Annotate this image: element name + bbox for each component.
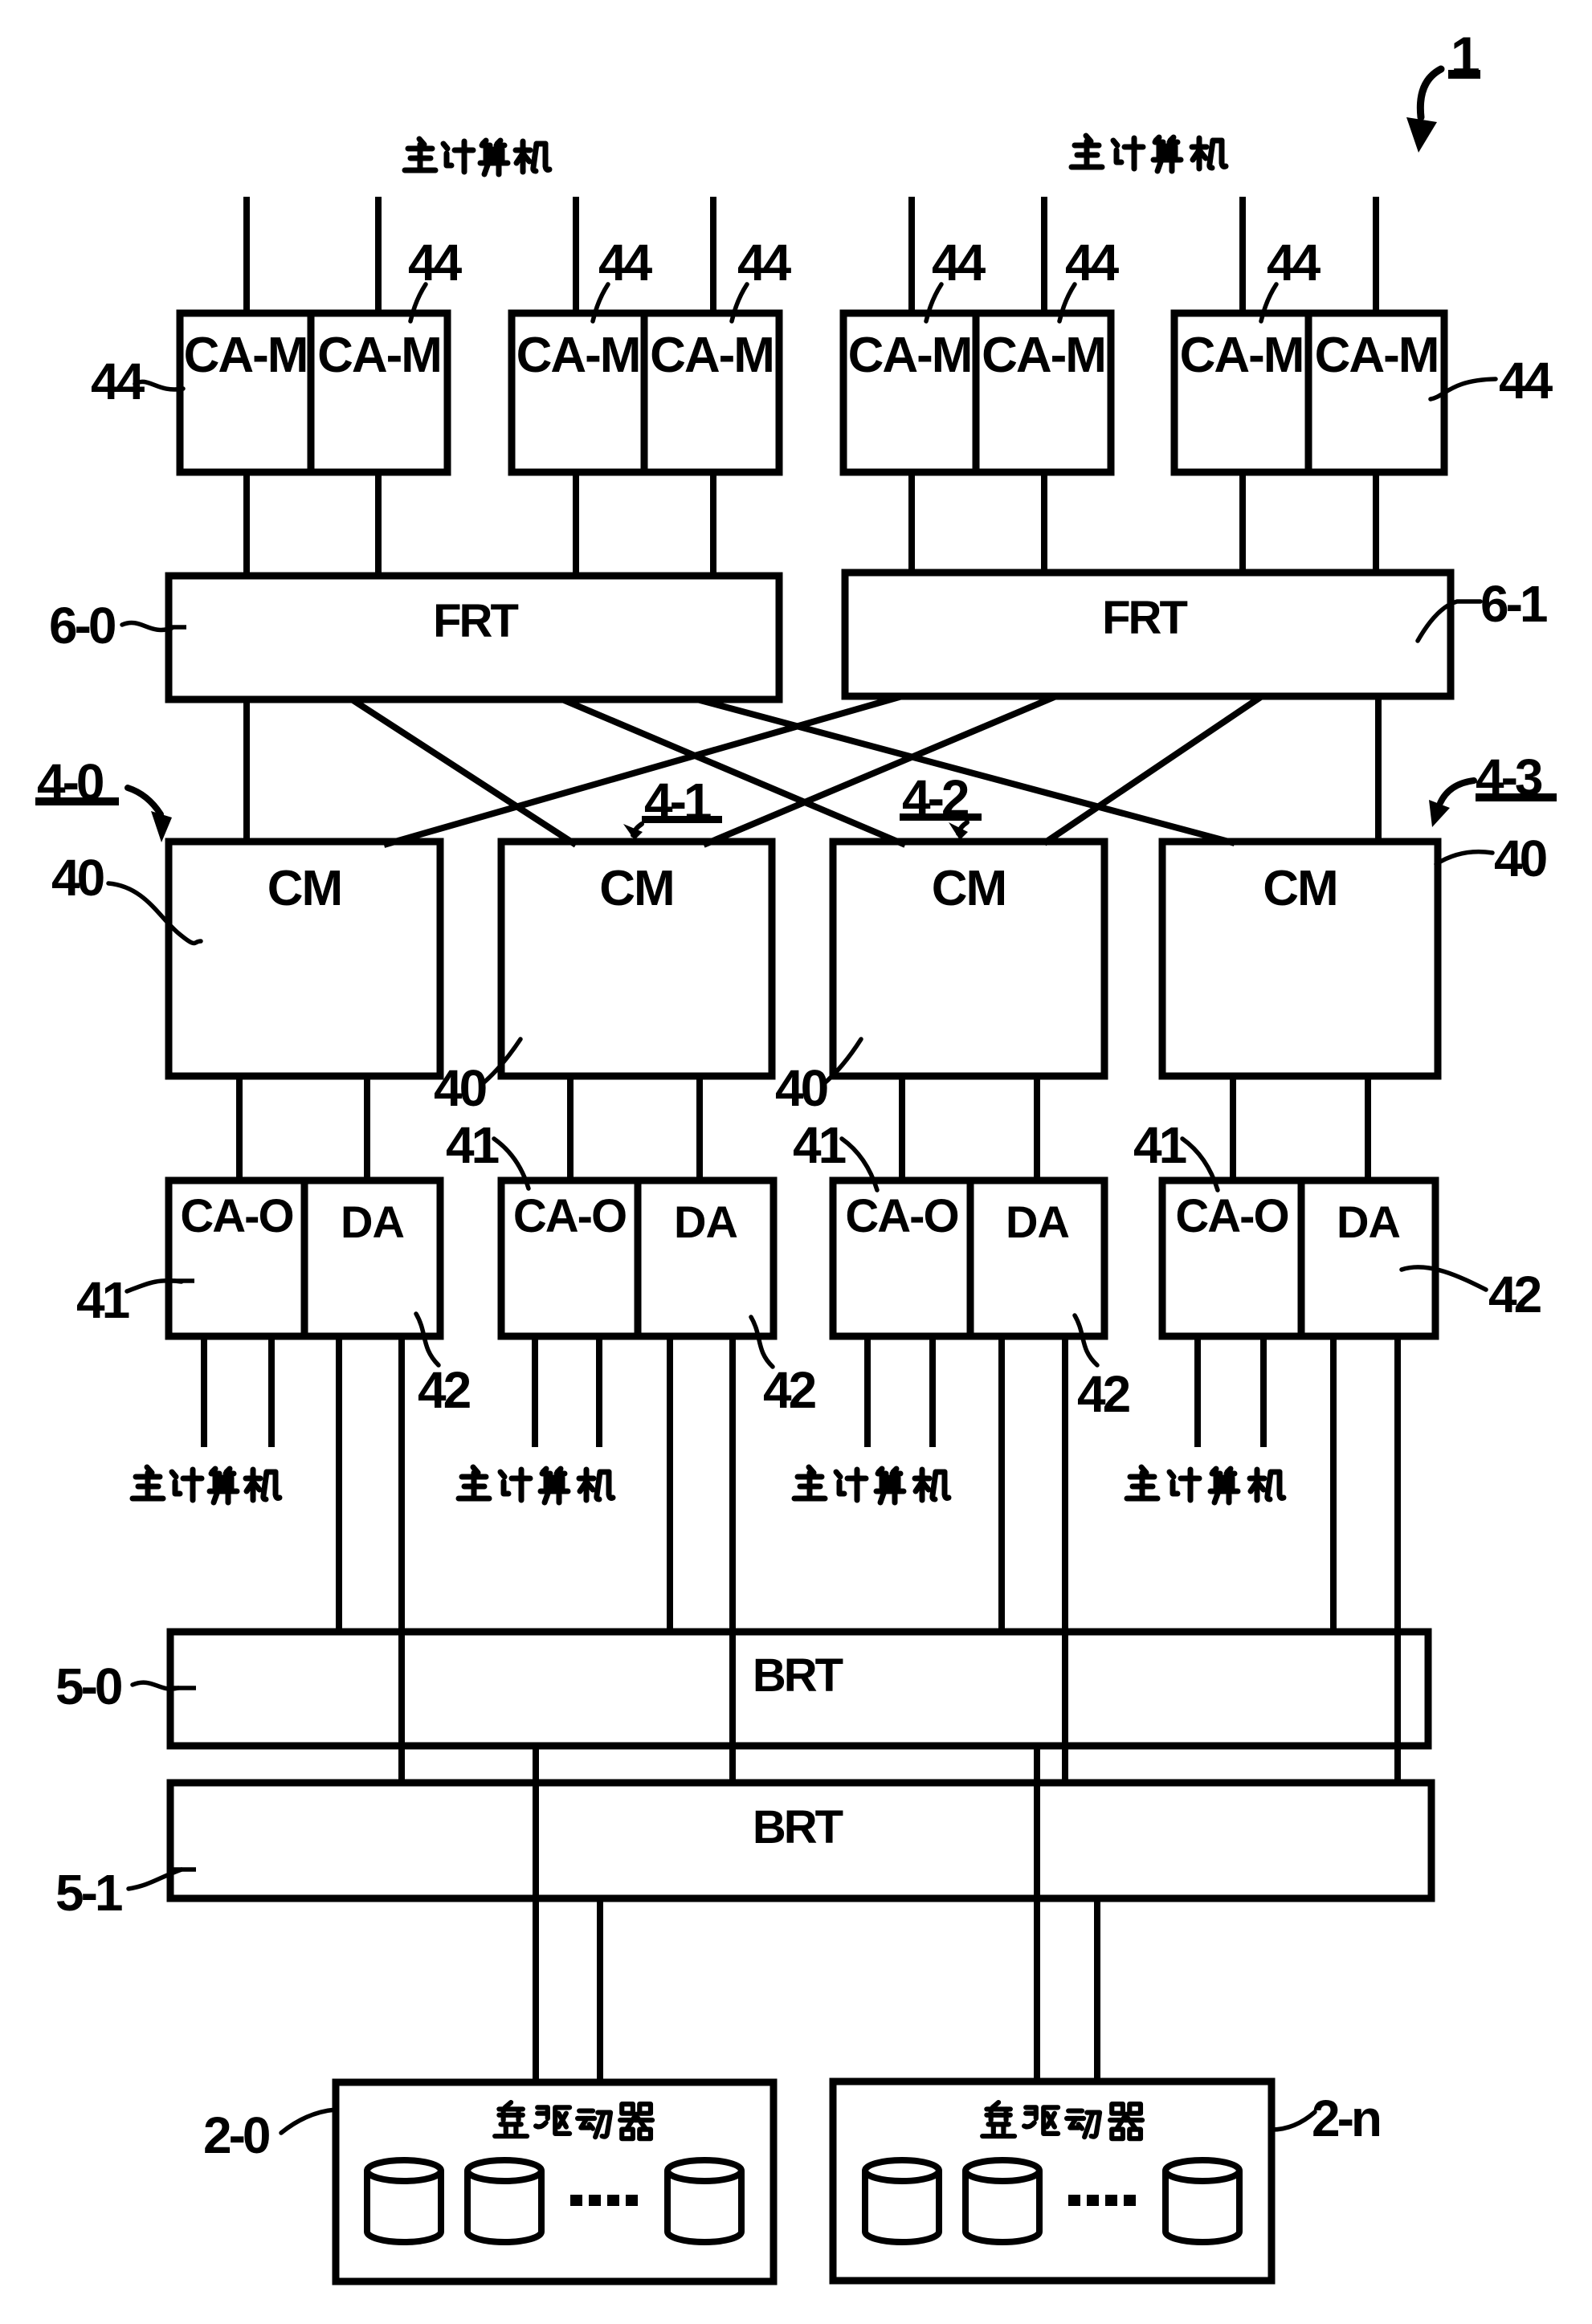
- svg-text:40: 40: [434, 1059, 486, 1117]
- svg-text:41: 41: [76, 1271, 129, 1329]
- svg-text:CM: CM: [932, 861, 1006, 916]
- svg-text:42: 42: [1488, 1266, 1541, 1323]
- svg-text:CA-O: CA-O: [1175, 1190, 1288, 1242]
- svg-text:CA-M: CA-M: [848, 328, 972, 383]
- svg-text:FRT: FRT: [1102, 592, 1187, 644]
- svg-text:42: 42: [418, 1361, 471, 1419]
- svg-text:CA-O: CA-O: [845, 1190, 957, 1242]
- svg-text:40: 40: [775, 1059, 827, 1117]
- svg-text:BRT: BRT: [753, 1649, 843, 1702]
- svg-text:BRT: BRT: [753, 1801, 843, 1853]
- svg-text:44: 44: [408, 234, 463, 292]
- svg-text:41: 41: [446, 1116, 499, 1174]
- svg-text:CA-M: CA-M: [184, 328, 308, 383]
- svg-text:CA-M: CA-M: [650, 328, 774, 383]
- svg-text:42: 42: [763, 1361, 816, 1419]
- svg-text:CA-M: CA-M: [982, 328, 1105, 383]
- svg-text:CA-O: CA-O: [513, 1190, 626, 1242]
- svg-text:DA: DA: [341, 1197, 404, 1247]
- svg-text:6-0: 6-0: [49, 597, 115, 654]
- svg-text:40: 40: [51, 849, 104, 907]
- svg-text:DA: DA: [1337, 1197, 1400, 1247]
- svg-text:42: 42: [1077, 1365, 1130, 1423]
- svg-text:CA-M: CA-M: [516, 328, 640, 383]
- svg-text:41: 41: [1133, 1116, 1186, 1174]
- svg-text:41: 41: [793, 1116, 846, 1174]
- svg-text:2-0: 2-0: [203, 2106, 269, 2164]
- svg-text:44: 44: [1499, 352, 1553, 410]
- svg-text:CM: CM: [599, 861, 673, 916]
- svg-text:FRT: FRT: [433, 595, 518, 647]
- svg-text:DA: DA: [1006, 1197, 1069, 1247]
- svg-text:6-1: 6-1: [1480, 575, 1547, 633]
- svg-text:5-0: 5-0: [55, 1657, 121, 1715]
- svg-text:2-n: 2-n: [1312, 2090, 1380, 2147]
- svg-text:CA-M: CA-M: [1180, 328, 1304, 383]
- svg-text:CM: CM: [267, 861, 341, 916]
- svg-text:CA-M: CA-M: [317, 328, 441, 383]
- svg-text:CA-O: CA-O: [180, 1190, 292, 1242]
- svg-text:5-1: 5-1: [55, 1864, 122, 1922]
- svg-text:CA-M: CA-M: [1315, 328, 1439, 383]
- svg-text:40: 40: [1494, 830, 1546, 887]
- svg-text:DA: DA: [674, 1197, 737, 1247]
- svg-text:CM: CM: [1263, 861, 1337, 916]
